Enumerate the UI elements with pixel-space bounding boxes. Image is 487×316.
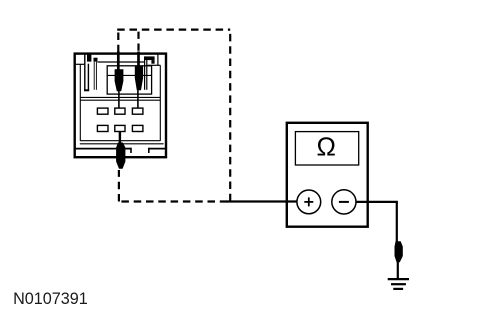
connector J1 left latch hook — [87, 53, 98, 61]
ohmmeter U1 negative terminal — [332, 190, 356, 214]
dashed meter lead bottom run — [119, 200, 227, 202]
ground symbol — [388, 279, 409, 289]
dashed meter lead stub from probe P2 — [137, 31, 139, 51]
connector J1 right latch hook — [144, 56, 155, 63]
connector J1 terminal cavity row 1 — [97, 108, 142, 114]
wire solid lead into meter positive terminal — [227, 200, 298, 202]
ground probe tip — [395, 241, 403, 262]
connector J1 bottom flange with notch — [74, 148, 166, 153]
test probe P3 in bottom terminal — [116, 132, 125, 169]
wire ground probe to ground symbol — [397, 262, 399, 279]
connector J1 left slot channel — [84, 64, 89, 91]
connector J1 inner terminal panel — [80, 66, 160, 100]
svg-text:Ω: Ω — [316, 132, 335, 162]
connector J1 terminal cavity row 2 — [97, 125, 142, 131]
test probe P1 in terminal 1 — [115, 52, 124, 109]
svg-text:N0107391: N0107391 — [13, 290, 88, 308]
ohmmeter U1 positive terminal — [297, 190, 321, 214]
connector J1 right guide column — [145, 60, 147, 90]
wire from meter negative terminal to ground — [356, 202, 397, 242]
connector J1 left guide column — [94, 62, 96, 90]
ohmmeter U1 display window — [295, 132, 358, 165]
test probe P2 in terminal 2 — [135, 52, 143, 109]
connector J1 right ear — [147, 54, 160, 66]
dashed meter lead drop from probe P3 — [118, 170, 120, 202]
connector J1 outer housing body — [75, 54, 166, 158]
connector J1 inner shell edges — [80, 62, 164, 144]
dashed meter lead top run — [117, 29, 230, 31]
ohmmeter U1 case — [287, 123, 368, 227]
connector J1 left ear — [76, 54, 85, 91]
dashed meter lead riser from probe P1 — [117, 29, 119, 53]
dashed meter lead right drop to meter positive — [229, 30, 231, 202]
